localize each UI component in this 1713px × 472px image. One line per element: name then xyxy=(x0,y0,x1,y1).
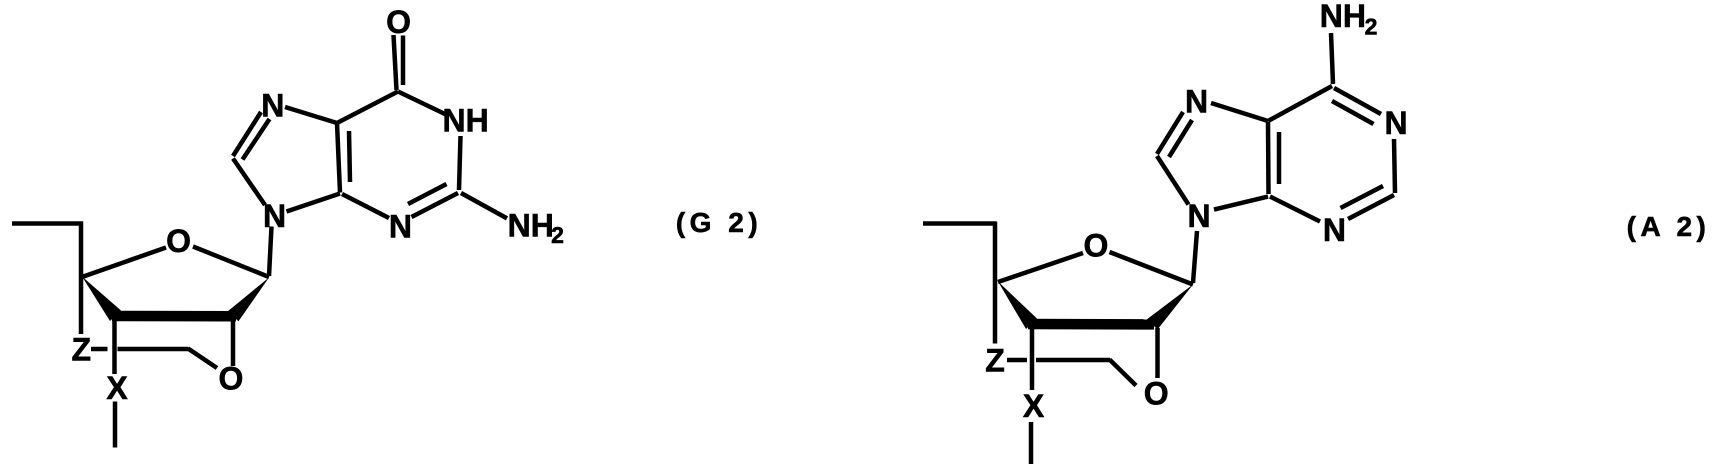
svg-text:2: 2 xyxy=(1365,14,1378,40)
svg-text:2: 2 xyxy=(551,222,564,248)
wire bridge slant to O2' xyxy=(188,349,217,369)
bond C4=C5 main xyxy=(337,123,340,193)
wire bridge slant to O2' xyxy=(1110,360,1137,386)
wire 5' chain vertical through C4' down to Z xyxy=(993,222,998,344)
bond N9-C1' xyxy=(269,227,272,277)
bond N9-C4 xyxy=(287,194,341,212)
bond C5-N7 xyxy=(285,107,337,123)
bold bond C3'-C2' xyxy=(1028,319,1154,330)
bond N3-C4 xyxy=(342,194,389,218)
svg-text:N: N xyxy=(1185,84,1208,120)
bond C2=N3 inner xyxy=(408,184,447,204)
svg-text:O: O xyxy=(1084,228,1109,264)
svg-text:N: N xyxy=(1323,212,1346,248)
bond C5-N7 xyxy=(1211,103,1268,121)
bond N7=C8 inner xyxy=(1169,120,1192,157)
svg-text:Z: Z xyxy=(985,343,1005,379)
svg-text:(G 2): (G 2) xyxy=(676,207,762,238)
wire 5' chain horizontal xyxy=(12,221,83,226)
bond C8-N9 xyxy=(1157,156,1189,205)
svg-text:NH: NH xyxy=(1320,0,1366,34)
bond C6=N1 main xyxy=(1334,88,1381,114)
bond N9-C4 xyxy=(1214,197,1268,210)
bond N1-C2 xyxy=(1394,139,1395,193)
wire below X xyxy=(113,402,118,448)
wedge bond C4'-C3' xyxy=(82,277,121,322)
wedge bond C1'-C2' xyxy=(228,278,270,322)
svg-text:Z: Z xyxy=(72,332,92,368)
svg-text:O: O xyxy=(386,4,411,40)
bond C6=O right line xyxy=(401,36,406,86)
bond N7=C8 inner xyxy=(243,119,270,160)
wire 5' chain horizontal xyxy=(923,221,996,226)
svg-text:(A 2): (A 2) xyxy=(1627,211,1711,242)
bond C6=N1 inner xyxy=(1332,101,1374,124)
bond C4=C5 inner xyxy=(1277,132,1282,184)
svg-text:NH: NH xyxy=(508,208,554,244)
bond C2' down to O2' xyxy=(1155,328,1160,378)
wire 5' chain vertical through C4' down to Z xyxy=(79,222,84,335)
svg-text:N: N xyxy=(1187,198,1210,234)
bond C6-N1 xyxy=(398,92,447,116)
bond O4'-C1' xyxy=(1110,252,1194,285)
svg-text:N: N xyxy=(1384,105,1407,141)
bond C4=C5 inner xyxy=(349,131,350,182)
bond N7=C8 main xyxy=(1157,112,1183,154)
bond C5-C6 xyxy=(337,92,398,124)
svg-text:NH: NH xyxy=(442,103,488,139)
bond C2=N3 main xyxy=(412,193,459,217)
svg-text:N: N xyxy=(389,208,412,244)
wire bridge horizontal xyxy=(1036,358,1110,363)
wedge bond C4'-C3' xyxy=(998,282,1037,330)
bond C8-N9 xyxy=(233,159,265,206)
bond Z dash xyxy=(91,347,108,352)
bond N1-C2 xyxy=(459,136,461,190)
bond N9-C1' xyxy=(1193,231,1197,283)
bond C2=N3 main xyxy=(1348,195,1394,219)
svg-text:O: O xyxy=(1144,376,1169,412)
bond C4'-O4' xyxy=(82,248,166,278)
bond C3' down to X xyxy=(112,316,117,374)
bond NH2-C6 xyxy=(1331,33,1333,84)
wire bridge horizontal xyxy=(118,347,189,352)
bond C2' down to O2' xyxy=(231,319,236,366)
bond O4'-C1' xyxy=(193,247,269,278)
bond C4=C5 main xyxy=(1266,122,1271,194)
bond C4'-O4' xyxy=(998,253,1083,282)
bond N7=C8 main xyxy=(233,112,261,156)
bond C2=N3 inner xyxy=(1341,186,1384,208)
wedge bond C1'-C2' xyxy=(1147,285,1193,330)
bond C5-C6 xyxy=(1268,86,1332,121)
bond C2-NH2 xyxy=(461,193,507,218)
svg-text:O: O xyxy=(166,223,191,259)
bond C6=O left line xyxy=(394,35,397,90)
bold bond C3'-C2' xyxy=(112,311,236,322)
wire below X xyxy=(1029,422,1034,464)
svg-text:X: X xyxy=(106,370,128,406)
bond Z dash xyxy=(1007,358,1027,363)
bond C3' down to X xyxy=(1030,324,1035,390)
bond N3-C4 xyxy=(1270,197,1320,222)
svg-text:N: N xyxy=(261,88,284,124)
svg-text:X: X xyxy=(1023,388,1045,424)
